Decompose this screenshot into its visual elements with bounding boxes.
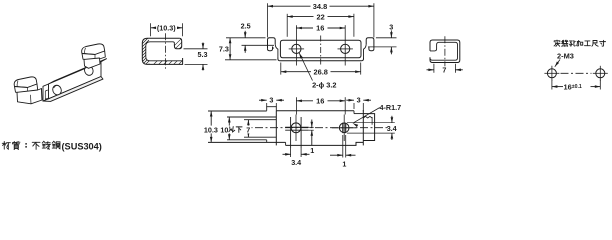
svg-text:3: 3 [357, 95, 361, 104]
dim 3 right plan ext b [362, 103, 364, 112]
dim 10.3 arrowhead top [210, 111, 213, 117]
dim 2.5 ext bottom [242, 44, 275, 46]
plan right notch step down [353, 111, 355, 114]
dim 34.8 arrowhead right [368, 5, 374, 8]
dim 16 plan arrowhead left [296, 100, 302, 103]
dim 3.4 left tail a [283, 153, 291, 155]
mount hole right crosshair v [599, 66, 601, 81]
dim 7 end arrowhead left [428, 69, 434, 72]
dim 22 ext right [353, 14, 355, 37]
dim 7 line [247, 120, 249, 138]
dim 7 end ext right [454, 64, 456, 73]
plan hole right [339, 123, 349, 133]
iso left hook body [17, 89, 42, 104]
side view outer contour [142, 38, 182, 64]
dim 16tol ext left [551, 80, 553, 90]
plan right hook outline [363, 114, 374, 141]
svg-text:34.8: 34.8 [313, 2, 327, 11]
side view hook tab [174, 38, 181, 49]
iso right hook cap front [82, 51, 105, 61]
dim 10.3 line [210, 111, 212, 142]
svg-text:2-ϕ 3.2: 2-ϕ 3.2 [312, 80, 336, 89]
dim 22 line right [328, 16, 354, 18]
dim 3 left arrowhead b [276, 99, 282, 102]
dim 2.5 tail top [244, 31, 246, 38]
char colon [21, 143, 32, 147]
plan plate right edge [362, 110, 364, 145]
plan right hook break mark [363, 116, 372, 118]
svg-text:2.5: 2.5 [241, 21, 251, 30]
plan left hook notch [267, 107, 277, 111]
char gang [52, 141, 60, 149]
dim (10.3) ext line right [182, 23, 184, 36]
dim 7 arrowhead bottom [247, 132, 250, 138]
char cai [2, 141, 10, 149]
plan right hole centerline v [343, 115, 345, 142]
bar bottom lip [43, 77, 103, 102]
dim 10.3 arrowhead bottom [210, 137, 213, 143]
dim 16tol ext right [599, 80, 601, 90]
mount holes centerline [561, 72, 592, 74]
dim 1 left arrowhead top [311, 122, 314, 128]
title char kong [569, 41, 575, 47]
svg-text:7.3: 7.3 [219, 45, 229, 54]
dim (10.3) ext line left [150, 23, 152, 36]
dim 1 right tail b [346, 154, 356, 156]
plan right hook inner line [371, 117, 373, 125]
title char an [554, 40, 560, 46]
end view outer contour [430, 40, 460, 63]
plan panel inner bottom [227, 139, 267, 141]
dim 3 left ext b [275, 103, 277, 107]
dim (10.3) arrow tail right [179, 27, 183, 29]
side view hatching bottom band [148, 56, 197, 70]
dim 26.8 arrowhead right [355, 70, 361, 73]
dim 3 right tail bottom [390, 47, 392, 54]
iso left hook cap inner [17, 81, 28, 94]
svg-text:3: 3 [269, 95, 273, 104]
iso right hook cap inner [85, 48, 95, 61]
dim 1 right arrowhead a [337, 154, 343, 157]
dim 7.3 line [229, 38, 231, 60]
dim 3 left tail b [276, 99, 284, 101]
dim 3 right ext bottom [368, 46, 397, 48]
dim 1 right ext a [342, 135, 344, 158]
dim 3 right plan ext a [353, 103, 355, 109]
svg-text:3.4: 3.4 [387, 124, 397, 133]
dim 7 end tail left [427, 69, 434, 71]
dim 3.4 left ext b [300, 148, 302, 157]
dim 16 line right [328, 27, 346, 29]
dim text xia (of yixia) [236, 127, 242, 132]
bar left end face [43, 84, 49, 101]
dim 34.8 line left [268, 5, 311, 7]
dim 2.5/7.3 shared ext top [226, 37, 266, 39]
dim 3 right arrowhead top [390, 32, 393, 38]
title char gong [584, 41, 590, 46]
plan panel bottom edge [208, 141, 286, 143]
dim 7 end tail right [455, 69, 462, 71]
leader arrowhead 2-dia3.2 [299, 53, 303, 59]
iso right hook cap top [82, 44, 105, 55]
iso left hook cap front [15, 84, 38, 94]
front view plate face [280, 40, 361, 58]
mount hole right M3 [596, 69, 605, 78]
svg-text:3: 3 [389, 23, 393, 32]
front view right hook curl [369, 47, 374, 51]
dim 16 line left [296, 27, 313, 29]
plan left vslot edge b [300, 117, 302, 148]
plan jaw top [244, 119, 276, 121]
mount hole right crosshair h [593, 72, 608, 74]
mount hole left crosshair v [551, 66, 553, 81]
side view inner contour [146, 42, 183, 61]
dim 16 ext right / hole centerline [344, 25, 346, 65]
bar top face [49, 59, 107, 84]
dim 3.4 right tail top [391, 116, 393, 123]
side view hatching tab [168, 36, 196, 52]
dim 7.3 arrowhead top [229, 38, 232, 44]
dim 1 right ext b [345, 135, 347, 158]
dim 3.4 left ext a [290, 148, 292, 157]
dim 16tol line right [591, 86, 601, 88]
dim 16 arrowhead left [296, 27, 302, 30]
dim 1 left ext b [309, 129, 314, 131]
iso left hook cap top [14, 77, 37, 88]
dim 5.3 ext line top [184, 48, 208, 50]
dim 10 max line [228, 117, 230, 140]
dim 1 left tail top [311, 120, 313, 128]
plan view centerline h [240, 127, 390, 129]
dim 16tol arrowhead right [595, 85, 601, 88]
dim 3.4 left tail b [301, 153, 309, 155]
front view left curl inner [273, 47, 275, 49]
dim text yi (of yixia) [229, 127, 235, 132]
leader 4-R1.7 [353, 108, 380, 124]
plan plate top edge [276, 110, 354, 112]
svg-text:(10.3): (10.3) [157, 23, 176, 32]
dim 1 left ext a [309, 126, 314, 128]
mount hole left crosshair h [544, 72, 559, 74]
dim 16tol arrowhead left [552, 85, 558, 88]
dim 26.8 line left [281, 71, 311, 73]
plan left slot top edge [285, 126, 308, 128]
dim 5.3 arrowhead bottom [202, 64, 205, 70]
svg-text:22: 22 [316, 12, 324, 21]
svg-text:(SUS304): (SUS304) [62, 141, 102, 151]
end view centerline [444, 36, 446, 66]
dim 3 right ext top [376, 37, 397, 39]
bar front face [49, 62, 102, 99]
dim 16tol line left [552, 86, 563, 88]
char xiu [42, 141, 50, 149]
plan plate left edge [275, 111, 277, 146]
dim 34.8 arrowhead left [268, 5, 274, 8]
dim 16 ext left / hole centerline [295, 25, 297, 65]
dim 22 line left [287, 16, 313, 18]
dim 2.5 arrowhead top [244, 32, 247, 38]
front view left hook outer [268, 38, 276, 49]
hole arc shading 2 [86, 66, 90, 69]
isometric view of bracket [14, 44, 106, 104]
svg-text:1: 1 [342, 159, 346, 168]
plan jaw bottom [244, 136, 276, 138]
front hole left 3.2dia [292, 44, 301, 53]
svg-text:26.8: 26.8 [314, 67, 328, 76]
title char cun [600, 40, 606, 46]
dim (10.3) arrowhead right [177, 27, 183, 30]
front view centerline [320, 36, 322, 67]
dim 5.3 ext line bottom [185, 63, 208, 65]
mount hole left M3 [547, 69, 556, 78]
title char zhuang [562, 40, 568, 46]
front view left hook curl [268, 47, 273, 51]
dim 7 arrowhead top [247, 120, 250, 126]
front view right neck [364, 44, 367, 58]
dim 3 left tail a [259, 99, 267, 101]
svg-text:10.3: 10.3 [204, 125, 218, 134]
dim 22 ext left [286, 14, 288, 37]
dim 26.8 ext right [360, 63, 362, 75]
dim 16 plan arrowhead right [340, 100, 346, 103]
dim 2.5 arrowhead bottom [244, 45, 247, 51]
svg-text:10: 10 [220, 125, 228, 134]
plan plate bottom edge with step [286, 142, 364, 145]
plan left hole centerline v [295, 115, 297, 142]
dim 16 plan ext left [295, 97, 297, 114]
dim 3 right tail top [390, 30, 392, 37]
title char chi [592, 41, 598, 47]
dim 2.5 tail bottom [244, 45, 246, 53]
dim 10 max arrowhead bottom [228, 134, 231, 140]
svg-text:7: 7 [246, 125, 250, 134]
dim (10.3) arrow tail left [151, 27, 155, 29]
leader 2-dia3.2 [299, 53, 312, 81]
dim 7 end arrowhead right [455, 69, 461, 72]
dim 5.3 arrow tail bottom [202, 64, 204, 70]
front view bottom strip [278, 58, 364, 61]
side view hatching left band [112, 36, 183, 68]
dim 34.8 ext right [373, 3, 375, 37]
dim 1 left tail bottom [311, 130, 313, 145]
dim 3 left arrowhead a [261, 99, 267, 102]
dim 3.4 left arrowhead a [285, 153, 291, 156]
dim 22 arrowhead right [348, 15, 354, 18]
char bu [32, 142, 40, 149]
dim 3 right plan tail a [346, 99, 354, 101]
svg-text:5.3: 5.3 [198, 50, 208, 59]
svg-text:2-M3: 2-M3 [557, 51, 574, 60]
dim 3 right plan arrowhead a [349, 99, 355, 102]
dim 7.3 arrowhead bottom [229, 54, 232, 60]
dim 16 plan line right [328, 100, 346, 102]
plan panel inner top [227, 116, 276, 118]
dim 3.4 right ext b [347, 132, 395, 134]
dim 3.4 left arrowhead b [301, 153, 307, 156]
char zhi [12, 141, 20, 149]
dim 3.4 right tail bottom [391, 133, 393, 140]
plan panel top edge [208, 110, 267, 112]
dim (10.3) arrowhead left [151, 27, 157, 30]
leader arrowhead 2-M3 [555, 62, 559, 67]
leader arrowhead 4-R1.7 [353, 123, 358, 127]
dim 5.3 arrow tail top [202, 43, 204, 49]
dim 3 right plan tail b [363, 99, 371, 101]
dim 3.4 right arrowhead bottom [391, 133, 394, 139]
svg-text:7: 7 [442, 65, 446, 74]
plan left vslot edge a [290, 117, 292, 148]
dim 22 arrowhead left [287, 15, 293, 18]
dim 26.8 arrowhead left [281, 70, 287, 73]
svg-text:16: 16 [316, 97, 324, 106]
front view right hook outer [366, 38, 374, 49]
dim 16 plan line left [296, 100, 313, 102]
plan right hole crosshair h [332, 127, 357, 129]
leader 2-M3 [555, 60, 560, 67]
front hole left crosshair h [289, 48, 304, 50]
dim 34.8 ext left [267, 3, 269, 37]
plan left hook step bottom [266, 140, 268, 143]
dim 34.8 line right [330, 5, 374, 7]
dim 7.3 ext bottom [225, 59, 277, 61]
dim 3.4 right ext a [347, 122, 395, 124]
dim 26.8 line right [331, 71, 361, 73]
dim 26.8 ext left [280, 63, 282, 75]
plan right notch edge [354, 113, 363, 115]
plan step left [285, 142, 287, 145]
plan hole left [291, 123, 301, 133]
front hole right crosshair h [338, 48, 353, 50]
svg-text:4-R1.7: 4-R1.7 [380, 103, 402, 112]
plan left slot bottom edge [285, 129, 308, 131]
plan right slot edges [343, 123, 346, 133]
side view centerline [165, 33, 167, 69]
dim 10 max arrowhead top [228, 117, 231, 123]
dim 5.3 arrowhead top [202, 43, 205, 49]
svg-text:3.4: 3.4 [291, 158, 301, 167]
dim 16 plan ext right [344, 97, 346, 114]
hole on iso front face 1 [51, 84, 62, 96]
dim 3.4 right arrowhead top [391, 117, 394, 123]
dim 3 left ext a [266, 103, 268, 107]
dim 16 arrowhead right [340, 27, 346, 30]
front hole right 3.2dia [341, 44, 350, 53]
dim 1 left arrowhead bottom [311, 130, 314, 136]
bar end slot mark [45, 90, 48, 99]
iso right hook body [84, 58, 100, 68]
title char jia [577, 41, 583, 46]
dim 1 right arrowhead b [346, 154, 352, 157]
svg-text:1: 1 [310, 146, 314, 155]
hole on iso front face 2 [83, 64, 94, 76]
end view inner contour [430, 42, 458, 60]
dim 1 right tail a [330, 154, 343, 156]
iso left hook body edge [31, 89, 42, 104]
front view left neck [275, 44, 278, 58]
svg-text:16: 16 [316, 24, 324, 33]
dim 3 right arrowhead bottom [390, 47, 393, 53]
hole arc shading 1 [54, 85, 58, 88]
dim 7 end ext left [433, 64, 435, 73]
dim 3 right plan arrowhead b [363, 99, 369, 102]
